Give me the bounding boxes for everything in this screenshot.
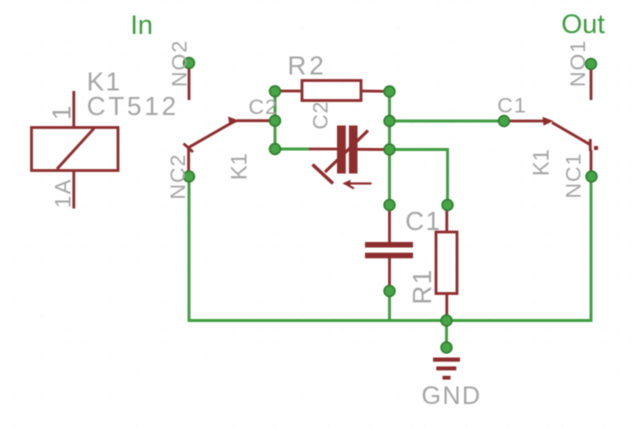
GND bar 1 — [433, 358, 460, 362]
pin dot NC1 — [586, 171, 597, 182]
K1 contact2 wire to common — [237, 119, 270, 122]
junction R1 top — [442, 200, 453, 211]
K1 contact1 end tick — [589, 139, 592, 151]
K1 contact2 pivot tick — [184, 144, 194, 153]
trimmer C2 right plate — [349, 126, 358, 174]
trimmer C2 arrow shaft — [325, 131, 368, 173]
svg-text:NC2: NC2 — [166, 153, 190, 199]
K1 contact2 NC2 stub — [187, 148, 190, 173]
svg-text:1: 1 — [47, 104, 77, 120]
junction C1 top — [384, 200, 395, 211]
junction right column mid — [384, 116, 395, 127]
junction right column top — [384, 86, 395, 97]
pin dot C1 common — [499, 116, 510, 127]
trimmer C2 left plate — [337, 126, 346, 174]
junction left column mid — [270, 115, 281, 126]
relay coil K1 rectangle — [32, 128, 119, 171]
svg-text:NO1: NO1 — [566, 40, 590, 87]
wire NC2 down, bottom bus, NC1 up — [189, 178, 591, 321]
svg-text:1A: 1A — [51, 178, 76, 208]
wire right column — [388, 92, 391, 206]
svg-text:K1: K1 — [528, 149, 553, 176]
trimmer C2 small arrow tail — [347, 184, 355, 189]
wire left column — [274, 91, 277, 149]
svg-text:C2: C2 — [249, 95, 278, 119]
capacitor C1 bottom pin — [388, 258, 391, 289]
relay coil diagonal — [57, 128, 95, 169]
K1 contact1 NC1 stub — [590, 150, 593, 173]
svg-text:K1: K1 — [226, 153, 251, 180]
junction C1 bottom — [384, 286, 395, 297]
capacitor C1 bottom plate — [365, 253, 413, 259]
trimmer C2 small arrowhead — [342, 180, 350, 187]
resistor R2 box — [302, 81, 361, 101]
capacitor C1 top pin — [388, 208, 391, 242]
wire left column to trimmer — [275, 148, 309, 151]
svg-text:C1: C1 — [497, 94, 526, 118]
resistor R1 top pin — [445, 208, 448, 232]
pin dot NC2 — [184, 171, 195, 182]
pin NO1 stub — [590, 66, 593, 100]
svg-text:R2: R2 — [288, 51, 327, 81]
svg-text:Out: Out — [561, 9, 605, 39]
svg-text:NO2: NO2 — [167, 40, 191, 87]
wire to contact1 common — [390, 120, 503, 123]
svg-text:CT512: CT512 — [87, 91, 179, 121]
trimmer C2 T-bar — [313, 165, 334, 184]
trimmer C2 right pin — [358, 148, 387, 151]
pin dot NO1 — [586, 59, 597, 70]
pin dot NO2 — [184, 58, 195, 69]
wire C1 bottom to bus — [388, 291, 391, 321]
wire R1 bottom to GND — [445, 321, 448, 348]
GND bar 3 — [443, 376, 451, 380]
K1 contact1 lever — [552, 123, 590, 145]
K1 contact2 arrowhead — [228, 117, 240, 126]
svg-text:GND: GND — [422, 382, 482, 410]
relay coil pin 1 (top) — [72, 91, 75, 128]
GND bar 2 — [436, 366, 456, 370]
svg-text:R1: R1 — [407, 268, 437, 304]
junction R1 bottom bus — [441, 315, 452, 326]
resistor R1 box — [436, 232, 457, 294]
relay coil pin 1A (bottom) — [72, 171, 75, 209]
resistor R2 right pin — [361, 90, 386, 93]
resistor R1 bottom pin — [445, 294, 448, 318]
junction left column top — [270, 86, 281, 97]
junction right column low — [384, 144, 395, 155]
svg-text:In: In — [130, 10, 153, 40]
junction left column bottom — [270, 144, 281, 155]
trimmer C2 left pin — [307, 148, 337, 151]
svg-text:NC1: NC1 — [561, 152, 585, 198]
trimmer C2 small arrow shaft — [348, 182, 372, 184]
wire junction to R1 column — [390, 150, 448, 206]
pin dot GND — [441, 342, 452, 353]
svg-text:C2: C2 — [309, 101, 332, 130]
K1 contact2 lever — [189, 123, 232, 148]
K1 contact1 wire from common — [508, 120, 544, 123]
K1 contact1 small square — [594, 146, 598, 150]
svg-text:C1: C1 — [405, 206, 441, 236]
resistor R2 left pin — [278, 90, 302, 93]
capacitor C1 top plate — [365, 242, 413, 248]
K1 contact1 arrowhead — [543, 117, 554, 126]
pin NO2 stub — [188, 66, 191, 100]
